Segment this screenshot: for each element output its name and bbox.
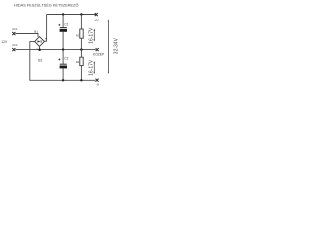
bridge plus mark	[46, 38, 47, 39]
wire bridge bottom vertex to mid rail	[39, 46, 41, 50]
wire C1 top	[62, 15, 64, 28]
terminal AC1 X	[12, 32, 15, 35]
junction bottom rail / R2	[80, 79, 82, 81]
dimension line lower	[93, 61, 95, 74]
terminal -U X	[96, 79, 99, 82]
svg-text:C2: C2	[64, 57, 68, 61]
wire bridge right vertex up to top rail	[44, 15, 46, 42]
svg-text:-U: -U	[96, 82, 99, 86]
capacitor C1 plus mark	[58, 24, 60, 26]
svg-text:16-17V: 16-17V	[89, 59, 95, 76]
bridge B1 diamond	[35, 37, 45, 47]
junction mid rail / R1-R2	[80, 48, 82, 50]
svg-text:HIDAS FESZÜLTSÉG KÉTSZEREZŐ: HIDAS FESZÜLTSÉG KÉTSZEREZŐ	[14, 3, 78, 8]
capacitor C2 plus mark	[58, 59, 60, 61]
terminal KÖZÉP X	[96, 48, 99, 51]
wire top rail	[47, 14, 96, 16]
junction top rail / C1	[62, 13, 64, 15]
svg-text:12V: 12V	[1, 40, 8, 44]
svg-text:AC2: AC2	[12, 43, 18, 47]
terminal AC2 X	[12, 48, 15, 51]
wire R2 top	[80, 50, 82, 58]
wire R2 bottom	[80, 66, 82, 81]
wire C1 bottom	[62, 32, 64, 50]
capacitor C1 top plate	[60, 27, 67, 29]
resistor R1 box	[80, 29, 83, 38]
wire C2 top	[62, 50, 64, 64]
wire C2 bottom	[62, 68, 64, 80]
wire AC1 to bridge top vertex	[15, 34, 38, 37]
dimension line upper	[93, 29, 95, 42]
svg-text:B1: B1	[34, 30, 38, 34]
capacitor C1 bottom plate (filled)	[60, 29, 67, 32]
wire AC2 / mid rail to KÖZÉP	[15, 49, 95, 51]
capacitor C2 top plate	[60, 63, 67, 65]
junction bridge bottom / mid rail	[38, 48, 41, 51]
wire R1 bottom	[80, 38, 82, 49]
wire bridge left vertex down to bottom rail	[30, 42, 96, 81]
junction top rail / R1	[80, 13, 82, 15]
capacitor C2 bottom plate (filled)	[60, 66, 67, 69]
terminal +U X	[95, 13, 98, 16]
junction mid rail / C1-C2	[62, 48, 64, 50]
resistor R2 box	[80, 57, 83, 65]
svg-text:R1: R1	[76, 33, 80, 37]
svg-text:B1: B1	[38, 58, 42, 62]
svg-text:C1: C1	[64, 23, 68, 27]
dimension line 32-34V	[108, 19, 109, 74]
svg-text:16-17V: 16-17V	[89, 27, 95, 44]
svg-text:KÖZÉP: KÖZÉP	[93, 51, 105, 56]
svg-text:32-34V: 32-34V	[114, 37, 120, 54]
svg-text:R2: R2	[76, 60, 80, 64]
svg-text:AC1: AC1	[12, 27, 18, 31]
junction bottom rail / C2	[62, 79, 64, 81]
wire R1 top	[80, 15, 82, 30]
svg-text:+U: +U	[94, 18, 98, 22]
bridge diode symbol	[38, 40, 42, 42]
